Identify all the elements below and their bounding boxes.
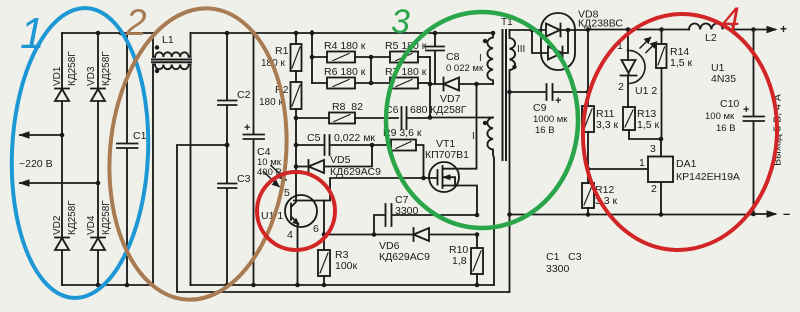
node: C10 bottom	[751, 212, 756, 217]
svg-text:КД238ВС: КД238ВС	[578, 18, 623, 30]
svg-text:~220 В: ~220 В	[19, 158, 53, 170]
node: R2/C5 junction	[294, 143, 299, 148]
node: C7 riser junction	[372, 232, 377, 237]
node: C8 top rail	[433, 31, 438, 36]
node: R9 to gate junction	[421, 176, 426, 181]
wire: bridge right column x98 top	[97, 33, 99, 87]
dual diode VD8 КД238ВС package	[541, 13, 575, 70]
svg-text:0,022 мк: 0,022 мк	[334, 132, 375, 144]
diode VD3 КД258Г	[91, 89, 105, 184]
svg-text:КП707В1: КП707В1	[425, 149, 469, 161]
svg-text:+: +	[743, 104, 749, 116]
wire: secondary plus rail	[588, 29, 689, 31]
node: R2/R8 junction	[294, 116, 299, 121]
resistor R1 180к	[295, 33, 297, 44]
optocoupler U1.1 phototransistor	[285, 195, 317, 227]
wire: VD1 to VD2	[61, 135, 63, 237]
node: VD6 right / source column	[475, 232, 480, 237]
wire: secondary minus rail	[510, 214, 754, 216]
node: secondary minus rail start	[507, 212, 512, 217]
node: C1 bottom	[125, 283, 130, 288]
svg-text:КД629АС9: КД629АС9	[379, 251, 430, 263]
resistor R12 3,3к	[582, 183, 594, 208]
node: C5/VD5/R9 node	[370, 143, 375, 148]
svg-text:C2: C2	[237, 89, 251, 101]
svg-text:16 В: 16 В	[535, 125, 555, 136]
wire: secondary common column x509	[509, 92, 511, 292]
resistor R14 1,5к	[661, 30, 663, 44]
chip DA1 КР142ЕН19А	[648, 157, 673, 183]
capacitor C3	[218, 145, 237, 285]
wire: C9 row	[510, 91, 547, 93]
node: C9 right	[586, 90, 591, 95]
svg-text:3300: 3300	[395, 205, 419, 217]
wire: AC input top lead	[20, 134, 62, 136]
diode VD1 КД258Г	[55, 89, 69, 136]
svg-text:КД258Г: КД258Г	[67, 200, 78, 235]
diode VD2 КД258Г	[55, 238, 69, 286]
node: top rail / VD3	[96, 31, 101, 36]
wire: R2 bottom column to U1.1	[295, 109, 297, 196]
wire: bridge left column x62	[61, 33, 63, 87]
svg-text:R1: R1	[275, 45, 289, 57]
node: winding I top rail	[491, 31, 496, 36]
svg-text:КД258Г: КД258Г	[101, 51, 112, 86]
transformer T1 winding III	[510, 30, 516, 92]
node: R11/R12/DA1 pin1 junction	[586, 167, 591, 172]
svg-text:КД629АС9: КД629АС9	[330, 166, 381, 178]
node: ladder mid top	[369, 55, 374, 60]
capacitor C6 680	[402, 107, 431, 129]
diode VD8 bottom half	[532, 30, 588, 60]
svg-text:VD3: VD3	[86, 66, 97, 86]
transformer T1 core	[503, 30, 507, 160]
resistor R3 100к	[323, 235, 325, 251]
svg-text:5: 5	[284, 187, 290, 199]
svg-text:1000 мк: 1000 мк	[533, 114, 568, 125]
svg-text:C1: C1	[133, 130, 147, 142]
svg-text:16 В: 16 В	[716, 123, 736, 134]
resistor R2 180к	[291, 82, 302, 109]
svg-text:+: +	[555, 95, 561, 107]
node: R4 left	[310, 55, 315, 60]
wire: midpoint to outer common rail	[177, 145, 509, 292]
node: winding I polarity dot	[483, 39, 487, 43]
wire: ladder left node riser	[311, 31, 313, 83]
transistor VT1 КП707В1 mosfet	[429, 162, 459, 192]
capacitor C7 3300	[374, 204, 477, 235]
resistor R5 180к	[390, 52, 418, 63]
svg-text:R5 180 к: R5 180 к	[385, 40, 427, 52]
svg-text:КД258Г: КД258Г	[430, 104, 467, 116]
annotation circle around U1.1 (red)	[257, 172, 335, 250]
svg-text:+: +	[780, 22, 787, 36]
wire: VD3 to VD4	[97, 183, 99, 237]
capacitor C5 0,022мк	[296, 135, 372, 155]
node: C2 C3 midpoint	[225, 143, 230, 148]
arrow AC input top	[20, 132, 29, 138]
wire: bottom rail left section	[62, 284, 153, 286]
wire: plus output arrow	[754, 29, 776, 31]
diode VD4 КД258Г	[91, 238, 105, 286]
LED emission arrows	[640, 38, 657, 53]
resistor R8 82	[296, 117, 329, 119]
svg-text:VD4: VD4	[86, 215, 97, 235]
wire: U1.1 collector to VT1 gate	[294, 178, 429, 201]
svg-text:C10: C10	[720, 98, 739, 110]
inductor L1 core	[152, 60, 191, 63]
node: R11 column top	[586, 27, 591, 32]
svg-text:L2: L2	[705, 32, 717, 44]
node: C4 top	[251, 31, 256, 36]
node: winding III polarity dot	[512, 65, 516, 69]
svg-text:I: I	[479, 53, 482, 64]
node: R10 bottom	[475, 283, 480, 288]
node: snubber VD7 junction	[428, 82, 433, 87]
svg-text:–: –	[783, 206, 790, 221]
svg-text:2: 2	[651, 183, 657, 195]
annotation ellipse 2 (brown) around filter	[98, 1, 299, 307]
wire: L2 to output plus	[734, 29, 754, 31]
svg-text:R7 180 к: R7 180 к	[385, 66, 427, 78]
svg-text:680: 680	[410, 104, 428, 116]
wire: LED cathode to R13	[627, 76, 629, 108]
node: C2 top	[225, 31, 230, 36]
svg-text:R6 180 к: R6 180 к	[324, 66, 366, 78]
node: R3 bottom	[322, 283, 327, 288]
node: L1 bottom winding polarity dot	[155, 69, 159, 73]
svg-text:C3: C3	[237, 173, 251, 185]
svg-text:С1 С3: С1 С3	[546, 251, 582, 263]
node: pin6/R3/VD6 node	[322, 232, 327, 237]
inductor L2	[689, 23, 734, 29]
svg-text:3: 3	[391, 3, 410, 41]
node: C7 right / source column	[475, 213, 480, 218]
svg-text:II: II	[472, 131, 478, 142]
svg-text:КД258Г: КД258Г	[67, 51, 78, 86]
node: U1.2 top	[626, 27, 631, 32]
svg-text:3: 3	[650, 143, 656, 155]
annotation ellipse 4 (red) around regulator	[577, 9, 783, 255]
svg-text:КД258Г: КД258Г	[101, 200, 112, 235]
svg-text:2: 2	[125, 2, 147, 43]
node: R13/R14/DA1 pin3 junction	[659, 137, 664, 142]
diode VD8 top half	[532, 24, 568, 37]
node: VD3-AC junction	[96, 181, 101, 186]
capacitor C8 0,022мк	[426, 33, 444, 84]
node: winding II polarity dot	[483, 121, 487, 125]
wire: VT1 source to R10 column	[443, 186, 478, 216]
optocoupler U1.2 LED	[628, 50, 646, 83]
optocoupler U1.2 LED column	[627, 30, 629, 61]
resistor R7 180к	[390, 78, 418, 89]
resistor R10 1,8	[476, 235, 478, 249]
svg-text:U1 2: U1 2	[635, 85, 657, 97]
node: VD8 anode junction	[530, 28, 535, 33]
wire: U1.1 pin6 lead	[323, 201, 325, 235]
resistor R6 180к	[312, 82, 327, 84]
svg-text:1: 1	[639, 157, 645, 169]
node: drain column / VD7 / winding I junction	[474, 82, 479, 87]
wire: pin6 node to VD6/C7	[324, 234, 374, 236]
inductor L1 bottom winding	[153, 65, 191, 286]
svg-text:1,5 к: 1,5 к	[637, 119, 660, 131]
node: VD8 cathode junction	[566, 28, 571, 33]
wire: VT1 drain to winding I bottom	[443, 84, 477, 169]
capacitor C4 electrolytic	[244, 33, 265, 285]
capacitor C10 100мк 16В	[744, 30, 765, 215]
node: ladder mid bottom	[369, 81, 374, 86]
transformer T1 winding I	[487, 33, 493, 84]
arrow AC input bottom	[20, 180, 29, 186]
wire: ladder mid node	[370, 57, 372, 83]
capacitor C2	[218, 33, 237, 145]
svg-text:1,5 к: 1,5 к	[670, 57, 693, 69]
diode VD6 КД629АС9	[374, 228, 477, 241]
node: DA1 pin2 bottom rail	[659, 212, 664, 217]
wire: gate drive to winding II top	[430, 117, 489, 119]
svg-text:1,8: 1,8	[452, 255, 467, 267]
wire: inner common rail (primary side)	[191, 284, 495, 286]
svg-text:180 к: 180 к	[259, 97, 283, 108]
node: C3 bottom	[225, 283, 230, 288]
node: R1 top	[294, 31, 299, 36]
svg-text:3,3 к: 3,3 к	[596, 119, 619, 131]
diode VD5 КД629АС9	[296, 145, 372, 173]
annotation ellipse 1 (blue) around bridge	[6, 5, 155, 301]
svg-text:100к: 100к	[335, 260, 358, 272]
node: VD4 bottom rail	[96, 283, 101, 288]
annotation ellipse 3 (green) around converter	[386, 12, 578, 228]
node: U1.1 emitter bottom rail	[295, 283, 300, 288]
svg-text:КР142ЕН19А: КР142ЕН19А	[676, 171, 740, 183]
svg-text:L1: L1	[162, 34, 174, 46]
node: R12 bottom rail	[586, 212, 591, 217]
node: VD1-AC junction	[60, 133, 65, 138]
resistor R9 3,6к	[372, 144, 391, 146]
svg-text:VD5: VD5	[330, 154, 351, 166]
resistor R11 3,3к	[582, 106, 594, 132]
node: C9 left	[507, 90, 512, 95]
svg-text:C9: C9	[533, 102, 547, 114]
svg-text:+: +	[244, 122, 250, 134]
wire: DA1 pin1 row	[588, 168, 648, 170]
svg-text:0 022 мк: 0 022 мк	[446, 63, 484, 74]
svg-text:R4 180 к: R4 180 к	[324, 40, 366, 52]
svg-text:DA1: DA1	[676, 158, 697, 170]
svg-text:C5: C5	[307, 132, 321, 144]
wire: top rail left section	[62, 32, 153, 34]
svg-text:4N35: 4N35	[711, 73, 736, 85]
wire: winding I bottom lead	[477, 83, 494, 85]
wire: AC input bottom lead	[20, 182, 98, 184]
svg-text:1: 1	[20, 9, 44, 58]
node: C1 top	[119, 31, 124, 36]
resistor R4 180к	[312, 56, 327, 58]
capacitor C9 1000мк 16В	[547, 84, 589, 100]
diode VD7 КД258Г	[430, 78, 477, 91]
svg-text:4: 4	[287, 229, 293, 241]
node: C10 top	[751, 27, 756, 32]
node: C4 bottom	[251, 283, 256, 288]
wire: minus output arrow	[754, 213, 776, 215]
svg-text:3300: 3300	[546, 263, 570, 275]
capacitor C1	[117, 33, 138, 285]
svg-text:R8 82: R8 82	[332, 101, 363, 113]
svg-text:2: 2	[618, 81, 624, 93]
inductor L1 common-mode choke top winding	[153, 33, 191, 57]
transformer T1 winding II	[487, 118, 494, 286]
node: L1 top winding polarity dot	[155, 45, 159, 49]
svg-text:4: 4	[722, 1, 740, 37]
photodiode light arrows into U1.1	[264, 166, 286, 187]
node: C6 right junction	[428, 115, 433, 120]
wire: top rail center section	[191, 32, 494, 34]
wire: snubber node column x430	[429, 57, 431, 117]
svg-text:VD1: VD1	[52, 66, 63, 86]
resistor R13 1,5к	[623, 107, 635, 130]
svg-text:VD2: VD2	[52, 215, 63, 235]
wire R1-R2	[295, 71, 297, 82]
svg-text:III: III	[517, 44, 525, 55]
svg-text:6: 6	[313, 223, 319, 235]
wire: winding III top to VD8	[510, 29, 533, 31]
node: VD5 junction	[294, 164, 299, 169]
node: ladder left top	[310, 31, 315, 36]
svg-text:C8: C8	[446, 51, 460, 63]
wire: R11 R12 column	[587, 30, 589, 107]
svg-text:100 мк: 100 мк	[705, 111, 735, 122]
